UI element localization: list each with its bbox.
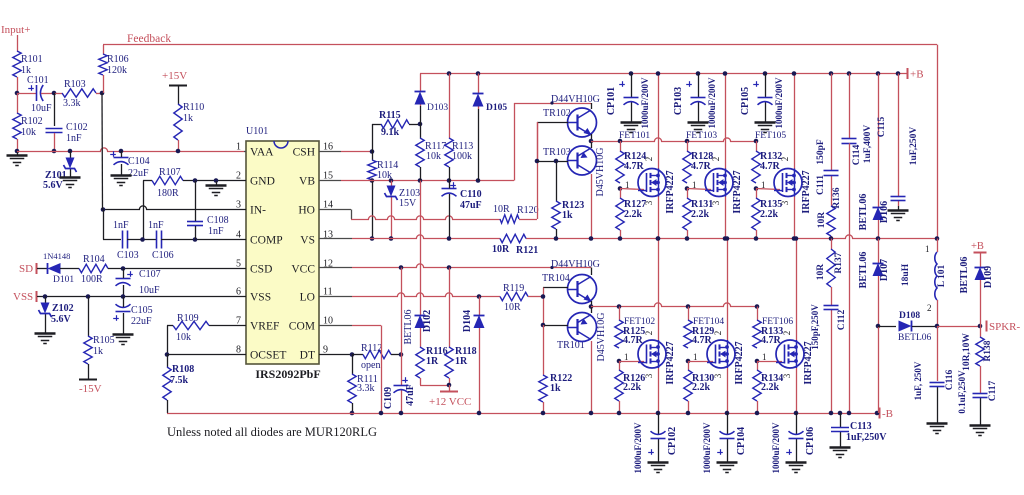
svg-text:4.7R: 4.7R <box>692 335 713 346</box>
resistor R133 4.7R <box>757 307 759 321</box>
svg-text:VS: VS <box>300 235 315 247</box>
svg-text:1nF: 1nF <box>66 133 82 144</box>
node source FET104 -B <box>725 411 730 416</box>
wire R107 left drop <box>143 181 145 240</box>
node R123 top <box>554 159 559 164</box>
wire +12 row <box>420 385 449 387</box>
node R117/VB <box>418 178 423 183</box>
wire VS rail <box>352 235 937 239</box>
wire C109 column upper <box>401 268 403 355</box>
node D105 +B <box>476 71 481 76</box>
ground below C113 <box>840 443 842 447</box>
capacitor CP101 1000uF <box>631 74 633 98</box>
node drain FET101 +B <box>656 71 661 76</box>
wire R109 corner <box>167 325 173 327</box>
capacitor C115 <box>898 74 900 197</box>
mosfet FET103 IRFP4227 <box>705 169 733 197</box>
node R103/R106/feedback <box>100 91 105 96</box>
node R123/VS <box>554 236 559 241</box>
node Z101 on rail <box>68 149 73 154</box>
wire L101 top lead <box>937 239 939 253</box>
node gate row FET104 <box>686 304 691 309</box>
svg-text:R115: R115 <box>379 110 401 121</box>
wire D107 node to -B <box>878 326 880 413</box>
resistor R122 <box>539 375 547 402</box>
node R127 VS <box>618 236 623 241</box>
wire drain FET103 to +B <box>725 74 727 169</box>
node gate FET103 <box>685 186 690 191</box>
svg-text:C113: C113 <box>850 421 872 432</box>
node R119/base <box>541 294 546 299</box>
wire source FET104 to -B <box>727 368 729 413</box>
svg-text:VB: VB <box>299 176 315 188</box>
resistor R110 <box>174 104 182 140</box>
svg-text:DT: DT <box>300 350 315 362</box>
svg-text:R101: R101 <box>21 54 43 65</box>
wire C107 top lead <box>123 269 125 279</box>
wire TR101 collector <box>591 341 593 413</box>
node C102/VAA rail <box>52 149 57 154</box>
node R136/VS <box>829 236 834 241</box>
wire L101 bottom lead <box>937 300 939 326</box>
wire feedback horizontal <box>103 44 937 46</box>
resistor R102 <box>17 93 19 113</box>
node R122/-B <box>541 411 546 416</box>
diode D109 <box>980 252 982 267</box>
svg-text:D108: D108 <box>899 311 920 321</box>
svg-text:10R: 10R <box>492 244 510 255</box>
pin15 stub <box>319 180 341 182</box>
svg-text:COMP: COMP <box>250 235 283 247</box>
svg-text:GND: GND <box>250 176 275 188</box>
svg-text:2: 2 <box>782 331 792 336</box>
svg-text:10R: 10R <box>504 302 521 313</box>
node OCSET/R108 <box>165 352 170 357</box>
svg-text:TR103: TR103 <box>543 147 571 158</box>
wire low base vertical <box>543 288 545 326</box>
node drain FET105 +B <box>792 71 797 76</box>
svg-text:1: 1 <box>693 352 698 362</box>
wire C104 top <box>121 151 123 157</box>
wire source FET101 to VS <box>658 197 660 239</box>
zener Z103 <box>391 181 393 186</box>
node C113 stub <box>838 411 843 416</box>
capacitor C105 <box>116 304 131 307</box>
svg-text:10R: 10R <box>493 204 510 215</box>
resistor R116 <box>420 328 422 347</box>
svg-text:CP101: CP101 <box>606 87 617 115</box>
svg-text:C110: C110 <box>460 189 482 200</box>
resistor R120 <box>500 215 519 223</box>
wire source FET102 to -B <box>658 368 660 413</box>
node Z103/VB <box>389 178 394 183</box>
node -B rail end <box>875 411 880 416</box>
wire R104 to pin5 <box>108 268 246 270</box>
ground below Z102 <box>45 329 47 333</box>
resistor R134 2.2k <box>757 361 759 370</box>
svg-text:150pF,250V: 150pF,250V <box>810 304 820 350</box>
capacitor CP105 1000uF <box>765 74 767 98</box>
node R113/C110/VB <box>447 178 452 183</box>
capacitor CP103 1000uF <box>698 74 700 98</box>
capacitor C107 <box>116 278 131 280</box>
wire gate FET105 <box>756 189 780 190</box>
svg-text:180R: 180R <box>157 188 179 199</box>
svg-text:IN-: IN- <box>250 205 266 217</box>
svg-text:1k: 1k <box>93 346 103 357</box>
svg-text:+B: +B <box>971 241 984 252</box>
ground below CP106 <box>796 458 798 462</box>
node D106 +B <box>876 71 881 76</box>
svg-text:IRS2092PbF: IRS2092PbF <box>255 367 320 381</box>
resistor R126 2.2k <box>619 361 621 370</box>
resistor R136 10R <box>827 206 835 236</box>
svg-text:C105: C105 <box>131 305 153 316</box>
pin10 stub <box>319 325 352 327</box>
capacitor C110 <box>442 188 457 190</box>
svg-text:C109: C109 <box>383 387 394 409</box>
svg-text:2: 2 <box>780 157 790 162</box>
svg-text:D45VH10G: D45VH10G <box>595 148 606 197</box>
svg-text:120k: 120k <box>107 65 127 76</box>
supply bar -15V <box>79 379 97 381</box>
svg-text:10k: 10k <box>21 127 36 138</box>
wire R110 to rail <box>178 140 180 151</box>
svg-text:1uF,400V: 1uF,400V <box>863 125 873 164</box>
resistor R138 10R 10W <box>980 326 982 337</box>
pin11 stub <box>319 296 352 298</box>
resistor R137 10R <box>831 239 833 250</box>
port +B <box>907 68 909 79</box>
ground at GND pin <box>216 181 218 185</box>
svg-text:-B: -B <box>882 408 893 420</box>
capacitor C113 <box>840 413 842 427</box>
supply bar +15V <box>169 85 187 87</box>
node drain FET103 +B <box>723 71 728 76</box>
svg-text:D103: D103 <box>427 103 448 113</box>
svg-text:R136: R136 <box>832 187 842 208</box>
svg-text:FET103: FET103 <box>686 131 717 141</box>
node R134 -B <box>755 411 760 416</box>
node low emitters <box>589 304 594 309</box>
node C103/C106 <box>140 237 145 242</box>
pin 1 stub <box>244 151 246 153</box>
svg-text:VCC: VCC <box>291 264 315 276</box>
svg-text:+12 VCC: +12 VCC <box>429 396 471 408</box>
node TR103 collector VS <box>589 236 594 241</box>
capacitor C101 <box>17 93 36 95</box>
node R131 VS <box>685 236 690 241</box>
capacitor CP104 1000uF <box>727 413 729 434</box>
svg-text:CSD: CSD <box>250 264 272 276</box>
node gate row FET102 <box>617 304 622 309</box>
node CSH/R114/R115 <box>370 149 375 154</box>
svg-text:2.2k: 2.2k <box>692 382 711 393</box>
diode D108 <box>899 321 912 332</box>
svg-text:CP102: CP102 <box>667 427 678 455</box>
svg-text:C108: C108 <box>207 215 229 226</box>
wire source FET103 to VS <box>725 197 727 239</box>
node C114/-B <box>847 411 852 416</box>
node R135 VS <box>754 236 759 241</box>
wire VCC row <box>352 264 591 268</box>
svg-text:VSS: VSS <box>13 291 33 303</box>
svg-text:1uF, 250V: 1uF, 250V <box>913 361 923 400</box>
resistor R128 4.7R <box>687 141 689 151</box>
resistor R113 <box>445 138 453 167</box>
ground below CP105 <box>765 118 767 122</box>
wire feedback corner vertical <box>937 45 939 239</box>
node gate row FET105 <box>754 139 759 144</box>
svg-text:C103: C103 <box>117 250 139 261</box>
svg-text:Input+: Input+ <box>1 24 30 36</box>
node input divider <box>15 91 20 96</box>
pin14 stub <box>319 209 351 211</box>
capacitor C111 150pF <box>831 74 833 171</box>
resistor R106 <box>103 45 105 54</box>
ground below C105 <box>123 330 125 334</box>
svg-text:C107: C107 <box>139 269 161 280</box>
svg-text:R112: R112 <box>361 343 382 354</box>
svg-text:2.2k: 2.2k <box>623 382 642 393</box>
wire Input+ to R101 <box>17 35 19 51</box>
wire VSS to R105 <box>88 297 90 337</box>
node +12/R118 <box>447 383 452 388</box>
svg-text:IRFP4227: IRFP4227 <box>801 170 812 213</box>
node gate FET105 <box>754 186 759 191</box>
wire IN- corner to COMP row <box>103 210 105 240</box>
capacitor C102 <box>46 128 63 130</box>
svg-text:1: 1 <box>762 352 767 362</box>
supply bar +12 VCC <box>440 391 458 393</box>
svg-text:FET105: FET105 <box>755 131 786 141</box>
svg-text:3.3k: 3.3k <box>357 383 375 394</box>
svg-text:open: open <box>361 360 380 371</box>
diode D104 <box>479 297 481 316</box>
wire base vertical to R122 <box>543 325 545 375</box>
svg-text:10R,10W: 10R,10W <box>962 333 972 371</box>
capacitor CP106 1000uF <box>796 413 798 434</box>
wire LO row <box>352 293 500 297</box>
wire +B to R113 <box>449 74 451 139</box>
svg-text:4.7R: 4.7R <box>760 161 781 172</box>
svg-text:10k: 10k <box>176 332 191 343</box>
resistor R103 <box>54 93 62 95</box>
node Z103/VS <box>389 236 394 241</box>
svg-text:SD: SD <box>19 263 33 275</box>
node C111 +B <box>829 71 834 76</box>
pin12 stub <box>319 267 352 269</box>
wire +15V to R110 <box>178 85 180 104</box>
svg-text:R107: R107 <box>159 167 181 178</box>
resistor R127 2.2k <box>620 189 622 199</box>
svg-text:1000uF/200V: 1000uF/200V <box>702 422 712 474</box>
svg-text:COM: COM <box>289 321 315 333</box>
diode D105 <box>478 74 480 94</box>
node R126 -B <box>617 411 622 416</box>
node CP105 +B <box>763 71 768 76</box>
resistor R115 <box>372 124 381 126</box>
zener Z102 <box>45 297 47 303</box>
svg-text:BETL06: BETL06 <box>858 252 869 289</box>
ground below Z101 <box>70 173 72 177</box>
wire D102 column upper <box>420 181 422 316</box>
svg-text:D106: D106 <box>879 201 890 223</box>
svg-text:1uF,250V: 1uF,250V <box>846 432 887 443</box>
svg-text:LO: LO <box>300 292 315 304</box>
svg-text:OCSET: OCSET <box>250 350 286 362</box>
svg-text:C101: C101 <box>27 75 49 86</box>
wire +B corner to D103 <box>420 74 422 91</box>
node C115 +B <box>896 71 901 76</box>
wire COMP row left <box>103 239 121 241</box>
node source FET101 VS <box>656 236 661 241</box>
node C105 <box>121 294 126 299</box>
svg-text:1R: 1R <box>455 356 468 367</box>
node C107 top <box>121 266 126 271</box>
svg-text:IRFP4227: IRFP4227 <box>665 170 676 213</box>
svg-text:C106: C106 <box>152 250 174 261</box>
node output/C116 <box>935 324 940 329</box>
svg-text:2: 2 <box>713 331 723 336</box>
ground below C117 <box>980 421 982 425</box>
svg-text:1k: 1k <box>550 383 561 394</box>
svg-text:R105: R105 <box>93 335 115 346</box>
node C101/R103/C102 <box>52 91 57 96</box>
port VSS <box>36 291 38 302</box>
wire gate FET104 <box>688 361 713 363</box>
node LO/D104 <box>477 294 482 299</box>
wire base vertical segment <box>537 122 539 161</box>
svg-text:2: 2 <box>644 157 654 162</box>
wire output row left <box>878 326 896 328</box>
capacitor C116 <box>937 387 939 419</box>
svg-text:7.5k: 7.5k <box>170 375 189 386</box>
svg-text:2.2k: 2.2k <box>691 209 710 220</box>
svg-text:C112: C112 <box>837 309 847 330</box>
svg-text:100k: 100k <box>452 151 472 162</box>
resistor R119 <box>500 292 528 300</box>
svg-text:1: 1 <box>925 244 930 254</box>
svg-text:D102: D102 <box>422 310 433 332</box>
wire VSS row <box>37 296 246 298</box>
mosfet FET106 IRFP4227 <box>776 340 804 368</box>
mosfet FET104 IRFP4227 <box>707 340 735 368</box>
svg-text:R120: R120 <box>517 205 539 216</box>
supply bar +B D109 <box>974 252 987 254</box>
node C114 +B <box>847 71 852 76</box>
diode D107 <box>878 239 880 264</box>
wire gate FET102 <box>619 361 644 363</box>
wire TR102 emitter lead <box>591 134 593 141</box>
svg-text:1nF: 1nF <box>113 220 129 231</box>
svg-text:2: 2 <box>711 157 721 162</box>
ground below R102 <box>17 151 19 155</box>
svg-text:R110: R110 <box>183 102 204 113</box>
ground below C115 <box>898 206 900 210</box>
op-amp U101 IRS2092PbF body <box>246 141 319 364</box>
node R102/ground rail <box>15 149 20 154</box>
svg-text:47uF: 47uF <box>460 200 482 211</box>
wire HO jog down <box>351 210 353 220</box>
transistor TR101 <box>568 313 597 342</box>
node C108 bottom <box>193 237 198 242</box>
svg-text:VSS: VSS <box>250 292 271 304</box>
svg-text:R103: R103 <box>64 79 86 90</box>
svg-text:47uF: 47uF <box>405 384 416 406</box>
svg-text:1N4148: 1N4148 <box>43 251 70 261</box>
svg-text:1000uF/200V: 1000uF/200V <box>633 422 643 474</box>
svg-text:4.7R: 4.7R <box>691 161 712 172</box>
svg-text:R138: R138 <box>983 340 993 361</box>
svg-text:SPKR-: SPKR- <box>989 321 1021 333</box>
svg-text:2.2k: 2.2k <box>624 209 643 220</box>
wire VREF row <box>209 325 246 327</box>
node TR103 base <box>535 159 540 164</box>
wire COM drop to -B <box>381 326 383 414</box>
svg-text:CP104: CP104 <box>736 427 747 455</box>
svg-text:IRFP4227: IRFP4227 <box>732 170 743 213</box>
waypoint VB loop <box>550 101 553 104</box>
inductor L101 18uH <box>935 252 937 300</box>
svg-text:1000uF/200V: 1000uF/200V <box>640 77 650 129</box>
pin16 stub <box>319 151 341 153</box>
svg-text:1nF: 1nF <box>148 220 164 231</box>
wire D105 to VB <box>478 109 480 181</box>
svg-text:100R: 100R <box>81 274 103 285</box>
svg-text:1k: 1k <box>183 113 193 124</box>
wire CSH row <box>341 151 372 153</box>
svg-text:9.1k: 9.1k <box>381 127 400 138</box>
resistor R105 <box>84 336 92 364</box>
resistor R108 <box>167 355 169 368</box>
resistor R121 <box>500 234 526 242</box>
wire gate FET106 <box>757 361 782 363</box>
node C112/-B <box>829 411 834 416</box>
wire VAA rail <box>17 148 244 152</box>
node R110 on rail <box>176 149 181 154</box>
node CP103 +B <box>696 71 701 76</box>
wire HO row <box>351 216 500 220</box>
svg-text:10R: 10R <box>816 264 826 281</box>
node gate row FET101 <box>618 139 623 144</box>
resistor R112 <box>352 354 363 356</box>
node R114/VB <box>370 178 375 183</box>
svg-text:D101: D101 <box>53 275 74 285</box>
node R130 -B <box>686 411 691 416</box>
wire C102 bottom <box>54 133 56 151</box>
diode D101 1N4148 <box>48 263 61 274</box>
svg-text:HO: HO <box>298 205 315 217</box>
wire COM row <box>352 325 381 327</box>
resistor R132 4.7R <box>756 141 758 151</box>
svg-text:2: 2 <box>644 331 654 336</box>
svg-text:1k: 1k <box>562 210 573 221</box>
svg-text:C115: C115 <box>877 116 887 137</box>
node CP101 +B <box>629 71 634 76</box>
svg-text:10uF: 10uF <box>139 285 160 296</box>
node VCC/C109 <box>399 265 404 270</box>
ground below CP104 <box>727 458 729 462</box>
wire TR103 collector <box>591 174 593 239</box>
node C110/VS <box>447 236 452 241</box>
wire COMP row right <box>161 239 246 241</box>
svg-text:R121: R121 <box>516 245 538 256</box>
wire source FET105 to VS <box>794 197 796 239</box>
svg-text:0.1uF,250V: 0.1uF,250V <box>957 370 967 414</box>
wire gate FET103 <box>687 189 711 190</box>
wire D108 to node <box>912 326 937 328</box>
